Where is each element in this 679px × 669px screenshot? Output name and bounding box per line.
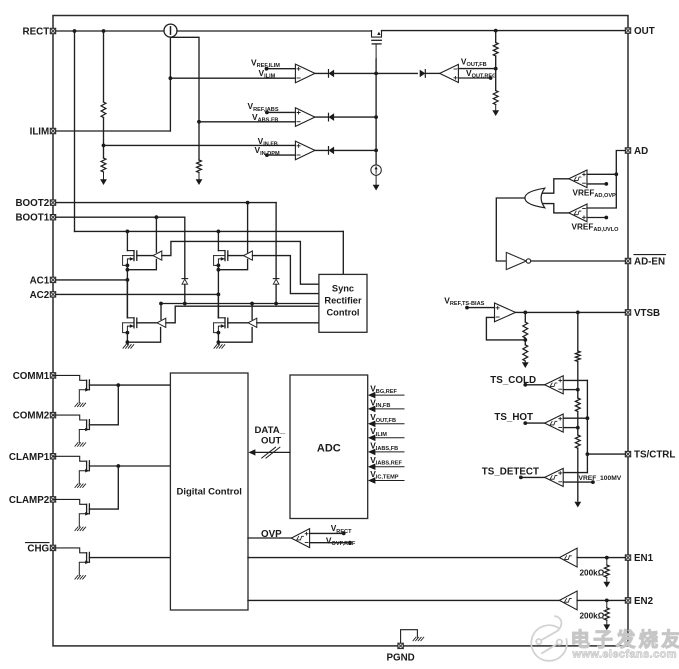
label VREF,IABS [248, 101, 279, 113]
wire CHG drain to digital control [89, 557, 170, 559]
wire gate bus [375, 59, 377, 165]
transistor Q CHG [53, 548, 89, 579]
transistor Q COMM2 [53, 415, 89, 446]
comparator U3 (IABS) [295, 108, 315, 127]
wire EN2 buffer out to digital control [248, 599, 559, 601]
buffer EN1 [559, 548, 577, 567]
driver A1 [153, 251, 162, 260]
diode D3 [329, 147, 335, 155]
label VOVP,REF [326, 536, 356, 548]
label VILIM [259, 68, 276, 80]
wire VREF AD,OVP stub [587, 182, 608, 186]
pin COMM1 [13, 371, 56, 382]
wire R3 column [494, 31, 498, 91]
wire Q3 source column [217, 265, 221, 317]
svg-text:Digital Control: Digital Control [176, 486, 241, 497]
transistor Q CLAMP2 [53, 499, 89, 530]
wire VOUT,REG stub [458, 76, 492, 80]
pin AD [625, 146, 648, 157]
resistor R7 [575, 435, 580, 448]
transistor Q COMM1 [53, 375, 89, 406]
svg-text:AD: AD [634, 146, 648, 157]
svg-text:CLAMP2: CLAMP2 [9, 495, 50, 506]
wire Q5 source to driver A4 feedback [218, 328, 252, 343]
ground below Q5 [214, 345, 225, 349]
wire VABS,FB input [199, 121, 295, 123]
label 200kOhm EN1 [580, 569, 605, 578]
svg-text:CLAMP1: CLAMP1 [9, 452, 50, 463]
wire OR to inverter [496, 198, 525, 261]
svg-text:EN1: EN1 [634, 553, 654, 564]
svg-text:CHG: CHG [27, 543, 49, 554]
wire TS chain seg4 [577, 448, 579, 501]
svg-text:COMM1: COMM1 [13, 371, 50, 382]
pin EN1 [625, 553, 653, 564]
wire supply to driver A3 [160, 304, 162, 320]
transistor Q2 (high-side 1) [123, 251, 137, 268]
arrow to gnd below R2 [196, 173, 203, 186]
wire EN2 pin to buffer [577, 599, 625, 603]
driver A2 [244, 251, 253, 260]
current source I2 [371, 165, 381, 175]
diode D2 [329, 113, 335, 121]
svg-text:OUT: OUT [634, 26, 655, 37]
pin ILIM [30, 127, 56, 138]
resistor R1 upper [101, 102, 106, 118]
signal VOUT,FB into ADC [368, 412, 404, 427]
svg-text:www.elecfans.com: www.elecfans.com [572, 648, 677, 660]
wire Q4 drain [126, 280, 128, 318]
wire Q3 gate to driver [228, 255, 244, 257]
resistor R5 [575, 351, 580, 362]
wire A4 input route [257, 322, 319, 324]
wire U7 plus input [587, 173, 616, 175]
comparator U8 (AD UVLO) [569, 204, 587, 222]
wire TS chain top [577, 312, 579, 351]
wire D6 to supply rail [275, 284, 277, 303]
signal VILIM into ADC [368, 426, 404, 441]
driver A3 [157, 318, 166, 327]
label VOUT,FB [461, 57, 487, 69]
arrow below current source [373, 175, 380, 190]
svg-text:ILIM: ILIM [30, 127, 50, 138]
svg-text:200kΩ: 200kΩ [580, 611, 605, 620]
label VIN,DPM [255, 145, 281, 157]
buffer EN2 [559, 591, 577, 610]
op-amp U9 (TS bias) [495, 303, 516, 322]
pin PGND [386, 643, 414, 663]
wire U7 out to OR [543, 179, 569, 193]
svg-text:VTSB: VTSB [634, 308, 660, 319]
signal VIC,TEMP into ADC [368, 469, 404, 484]
pin AC2 [30, 290, 56, 301]
wire U12 minus input [563, 480, 595, 484]
wire TS_COLD output stub [523, 383, 544, 387]
wire VIN,DPM stub [265, 153, 295, 157]
resistor R2 [197, 160, 202, 173]
wire COMM drains to digital control [89, 383, 170, 387]
wire R4 column [523, 312, 527, 344]
wire U8 out to OR [543, 204, 569, 213]
comparator U5 (VOUT reg) [440, 64, 459, 82]
inverter G2 [506, 252, 530, 269]
svg-text:BOOT1: BOOT1 [15, 213, 49, 224]
wire circle branch to R2 column [170, 37, 201, 160]
wire Q2 source to driver A1 feedback [127, 259, 156, 269]
wire VOUT,FB input [458, 68, 495, 70]
comparator U11 (TS_HOT) [545, 414, 564, 432]
wire rail into sync control box [342, 231, 344, 274]
wire D4 to U5 [425, 72, 439, 74]
transistor Q3 (high-side 2) [214, 251, 228, 268]
watermark text [571, 628, 679, 661]
wire U3 out to gate bus [315, 115, 378, 119]
label TS_HOT [494, 412, 533, 423]
wire U9 feedback [486, 317, 525, 340]
wire Q3 source to driver A2 feedback [218, 259, 247, 269]
label 200kOhm EN2 [580, 611, 605, 620]
wire U2 out to gate bus [315, 72, 417, 76]
svg-text:Rectifier: Rectifier [324, 296, 362, 306]
arrow to gnd below R3 [492, 105, 499, 117]
wire Q4 gate to driver [137, 322, 157, 324]
label TS_DETECT [482, 466, 539, 477]
wire TS_DETECT output stub [519, 476, 545, 480]
wire R1 column [102, 31, 106, 158]
diode D4 [420, 70, 426, 78]
label VREF_100MV [579, 475, 622, 482]
wire AC2 [56, 293, 219, 295]
label VOUT,REG [466, 68, 496, 80]
wire COMM2 drain [89, 385, 118, 425]
pin AD-EN [625, 255, 665, 268]
wire Q5 source column [217, 333, 221, 345]
wire CLAMP drains to digital control [89, 464, 170, 468]
block Digital Control [170, 373, 248, 610]
svg-text:TS_DETECT: TS_DETECT [482, 466, 539, 477]
svg-text:TS/CTRL: TS/CTRL [634, 450, 675, 461]
wire ILIM sense column [169, 37, 173, 131]
OR gate G1 [525, 188, 545, 208]
wire TS_HOT output stub [523, 421, 544, 425]
wire Q5 drain [217, 294, 219, 317]
wire U12 plus input [563, 472, 587, 474]
wire BOOT1 diode column [184, 217, 186, 278]
wire Q2 drain [126, 231, 128, 250]
signal VBG,REF into ADC [368, 384, 404, 399]
resistor R1 lower [101, 158, 106, 172]
wire TS/CTRL pin line [587, 453, 625, 455]
wire BOOT2 diode column [275, 203, 277, 279]
transistor Q5 (low-side 2) [214, 318, 228, 335]
label VREF AD,OVP [573, 189, 617, 200]
comparator U6 (OVP) [291, 529, 309, 548]
wire U9 out to VTSB pin [516, 311, 626, 315]
wire Q4 source to driver A3 feedback [127, 328, 160, 343]
comparator U4 (DPM) [295, 141, 315, 160]
wire AD pin net [587, 151, 625, 209]
signal VIN,FB into ADC [368, 397, 404, 412]
resistor 200k EN1 [603, 558, 610, 588]
label VREF,ILIM [251, 57, 280, 69]
watermark logo [531, 616, 567, 661]
signal VIABS,FB into ADC [368, 440, 404, 455]
wire CLAMP2 drain [89, 466, 118, 509]
wire RECT pin to current sense circle [56, 29, 165, 33]
ground at PGND [401, 630, 424, 643]
svg-text:ADC: ADC [317, 442, 341, 454]
ground below Q4 [123, 345, 134, 349]
wire VOVP,REF input [310, 541, 352, 545]
svg-text:Sync: Sync [332, 284, 354, 294]
wire Q2 gate to driver [137, 255, 153, 257]
label VREF,TS-BIAS [444, 295, 484, 307]
pin CLAMP2 [9, 495, 56, 506]
svg-text:EN2: EN2 [634, 596, 654, 607]
wire U4 out to gate bus [315, 149, 378, 153]
label VRECT [331, 523, 352, 535]
wire Q4 source column [126, 333, 130, 345]
wire ILIM pin to sense column [56, 130, 171, 132]
pin CLAMP1 [9, 452, 56, 463]
wire driver supply rail [159, 302, 319, 306]
wire TS chain seg3 [576, 412, 580, 436]
wire VILIM input [170, 77, 295, 79]
signal VIABS,REF into ADC [368, 455, 404, 470]
pin CHG [26, 543, 56, 555]
svg-text:VREF_100MV: VREF_100MV [579, 475, 622, 482]
wire U10 minus input [563, 389, 578, 391]
pin VTSB [625, 308, 660, 319]
label VABS,FB [252, 112, 278, 124]
wire VREF,TS-BIAS stub [465, 306, 494, 310]
pin COMM2 [13, 411, 56, 422]
transistor Q CLAMP1 [53, 456, 89, 487]
wire D5 to supply rail [184, 284, 186, 303]
diode D1 [329, 70, 335, 78]
svg-text:AC1: AC1 [30, 275, 50, 286]
pass transistor Q1 [372, 31, 382, 59]
resistor R6 [575, 398, 580, 412]
svg-text:AC2: AC2 [30, 290, 50, 301]
current sense circle I1 [164, 24, 177, 37]
wire EN1 pin to buffer [577, 556, 625, 560]
diode D5 (boot1) [182, 279, 188, 285]
wire RECT drop to rectifier rail [74, 31, 76, 231]
label VREF AD,UVLO [572, 223, 620, 234]
arrow to gnd below TS chain [574, 502, 581, 508]
wire circle to pass FET [177, 30, 372, 32]
svg-text:TS_COLD: TS_COLD [490, 375, 536, 386]
pin OUT [625, 26, 654, 37]
comparator U7 (AD OVP) [569, 170, 587, 188]
wire gate1 route [162, 241, 319, 284]
svg-text:BOOT2: BOOT2 [15, 198, 49, 209]
svg-text:RECT: RECT [23, 27, 50, 38]
wire U11 plus input [563, 417, 587, 419]
label VIN,FB [258, 136, 278, 148]
wire VREF AD,UVLO stub [587, 216, 608, 220]
wire VREF,IABS stub [265, 111, 295, 115]
pin BOOT2 [15, 198, 55, 209]
wire A3 input route [166, 306, 319, 323]
svg-text:PGND: PGND [386, 653, 414, 664]
label TS_COLD [490, 375, 536, 386]
wire Q5 gate to driver [228, 322, 248, 324]
wire inverter to AD-EN pin [531, 260, 626, 262]
pin BOOT1 [15, 213, 55, 224]
wire Q2 source column [126, 265, 130, 317]
resistor R4 upper [523, 322, 528, 338]
driver A4 [248, 318, 257, 327]
wire BOOT2 line [56, 201, 276, 205]
comparator U12 (TS_DETECT) [545, 468, 564, 486]
wire supply to driver A4 [251, 304, 253, 320]
diode D6 (boot2) [273, 279, 279, 285]
comparator U10 (TS_COLD) [545, 376, 564, 394]
svg-text:DATA_: DATA_ [255, 425, 286, 436]
pin RECT [23, 27, 56, 38]
resistor R3 upper [493, 43, 498, 57]
wire BOOT1 line [56, 215, 185, 219]
transistor Q4 (low-side 1) [123, 318, 137, 335]
comparator U2 (ILIM) [295, 64, 315, 83]
wire BOOT2 to driver A2 [247, 203, 249, 253]
wire U10 plus input [563, 379, 587, 381]
wire gate2 route [252, 256, 319, 294]
wire BOOT1 to driver A1 [155, 217, 157, 252]
svg-text:TS_HOT: TS_HOT [494, 412, 533, 423]
wire Q3 drain [217, 231, 219, 250]
wire TS chain seg2 [576, 362, 580, 399]
wire TS reference vertical [586, 380, 590, 472]
resistor R4 lower [523, 345, 528, 361]
bus DATA_OUT [248, 425, 290, 458]
wire U11 minus input [563, 427, 578, 429]
arrow to gnd below R4 [522, 361, 529, 368]
svg-text:Control: Control [326, 308, 359, 318]
svg-text:200kΩ: 200kΩ [580, 569, 605, 578]
wire OVP output [248, 537, 291, 539]
pin AC1 [30, 275, 56, 286]
wire EN1 buffer out to digital control [248, 557, 559, 559]
pin TS/CTRL [625, 450, 675, 461]
resistor R3 lower [493, 91, 498, 105]
wire VIN,FB input [104, 144, 296, 146]
wire pass FET to OUT pin [382, 29, 626, 33]
svg-text:OVP: OVP [261, 529, 282, 540]
wire rectifier rail [75, 230, 344, 234]
svg-text:AD-EN: AD-EN [634, 257, 665, 268]
svg-text:COMM2: COMM2 [13, 411, 50, 422]
block Sync Rectifier Control [319, 274, 367, 332]
resistor 200k EN2 [603, 600, 610, 630]
wire VRECT input [310, 532, 346, 536]
block ADC [290, 375, 368, 519]
wire VREF,ILIM stub [265, 67, 296, 71]
IC boundary box [53, 16, 628, 646]
pin EN2 [625, 596, 653, 607]
wire AC1 [56, 279, 128, 281]
arrow to gnd below R1 [100, 172, 107, 185]
label OVP [261, 529, 282, 540]
svg-text:OUT: OUT [261, 436, 281, 447]
